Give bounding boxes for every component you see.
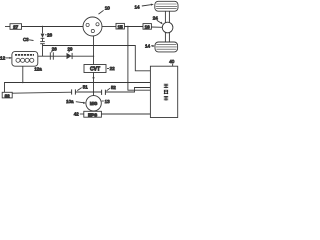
svg-text:14: 14 bbox=[145, 44, 151, 49]
wire engine to box15 bbox=[102, 26, 116, 28]
controller kanji glyph 3 bbox=[164, 96, 168, 100]
vertical1 wire to controller bbox=[128, 27, 150, 91]
node dot below CVT bbox=[93, 77, 95, 79]
controller kanji glyph 1 bbox=[164, 84, 168, 88]
shaft engine to CVT bbox=[93, 36, 95, 65]
box 16 bbox=[143, 24, 151, 30]
wire branch down to diode bbox=[42, 27, 44, 34]
node junction MG shaft on line A bbox=[93, 82, 94, 83]
battery inner squiggle bbox=[15, 54, 34, 56]
long line A bbox=[5, 83, 151, 93]
svg-text:14: 14 bbox=[134, 5, 140, 10]
axle lower double line bbox=[164, 32, 166, 42]
MG to EPS bbox=[93, 110, 95, 112]
wheel top 14 bbox=[155, 1, 178, 11]
capacitor 26b bbox=[49, 52, 51, 59]
svg-text:42: 42 bbox=[74, 112, 79, 117]
diode 29 bbox=[67, 53, 72, 59]
diff circle bbox=[162, 22, 173, 33]
wire box15 to box16 bbox=[124, 26, 143, 28]
shaft CVT to MG bbox=[93, 73, 95, 96]
battery drop wire bbox=[22, 66, 24, 82]
svg-text:12a: 12a bbox=[34, 67, 42, 72]
svg-text:29: 29 bbox=[68, 46, 73, 51]
svg-text:27: 27 bbox=[13, 25, 19, 30]
CVT box 22 bbox=[84, 65, 106, 73]
battery cells bbox=[16, 58, 20, 62]
EPS box 42 bbox=[84, 111, 102, 117]
box 32 bbox=[2, 92, 12, 98]
MG circle 13 bbox=[86, 96, 101, 111]
capacitor C3 bbox=[40, 41, 45, 43]
svg-text:32: 32 bbox=[5, 93, 11, 98]
svg-text:16: 16 bbox=[145, 25, 151, 30]
capacitor 51 bbox=[71, 89, 73, 94]
svg-text:24: 24 bbox=[153, 15, 159, 20]
svg-text:22: 22 bbox=[110, 66, 116, 71]
svg-text:40: 40 bbox=[169, 59, 175, 64]
controller kanji glyph 2 bbox=[164, 90, 168, 94]
wire cap51 to mid bbox=[75, 91, 101, 93]
svg-text:26: 26 bbox=[52, 46, 57, 51]
axle upper double line bbox=[164, 11, 166, 22]
svg-text:12: 12 bbox=[0, 56, 6, 61]
svg-text:MG: MG bbox=[90, 101, 98, 106]
cap diode line horizontal bbox=[38, 55, 94, 57]
capacitor 52 bbox=[101, 90, 103, 95]
node junction battery drop on line A bbox=[22, 82, 23, 83]
svg-text:26: 26 bbox=[47, 32, 52, 37]
control line upper horizontal bbox=[43, 46, 151, 71]
engine circle 10 bbox=[83, 17, 102, 36]
wire EPS to controller bbox=[101, 113, 150, 115]
controller box 40 bbox=[150, 66, 177, 117]
svg-text:51: 51 bbox=[83, 85, 88, 90]
wire C3 down to cap-diode line bbox=[42, 44, 44, 56]
svg-text:EPS: EPS bbox=[88, 112, 97, 117]
node junction MG shaft on clutch line bbox=[93, 91, 94, 92]
wire diode to C3 bbox=[42, 38, 44, 41]
diode 26 bbox=[41, 34, 45, 38]
wire box32 to clutch line bbox=[12, 92, 71, 93]
svg-text:15: 15 bbox=[118, 24, 124, 29]
wire box16 to diff bbox=[151, 26, 162, 28]
box 15 bbox=[116, 23, 124, 29]
box 27 bbox=[10, 24, 22, 30]
wheel bottom 14 bbox=[155, 42, 178, 52]
svg-text:52: 52 bbox=[111, 85, 116, 90]
label 13 bbox=[102, 100, 104, 102]
svg-text:13: 13 bbox=[105, 99, 111, 104]
svg-text:CVT: CVT bbox=[90, 67, 100, 73]
wire cap52 step to controller bbox=[105, 88, 150, 93]
svg-text:10a: 10a bbox=[66, 99, 74, 104]
wire left stub to box 27 bbox=[5, 26, 10, 28]
wire box27 to engine bbox=[22, 26, 84, 28]
battery box 12 bbox=[12, 52, 38, 67]
node junction shaft and cap-diode line bbox=[93, 56, 94, 57]
svg-text:10: 10 bbox=[105, 5, 111, 10]
node vertical1 top bbox=[127, 26, 128, 27]
svg-text:C3: C3 bbox=[23, 37, 29, 42]
node junction at diode branch bbox=[42, 26, 43, 27]
